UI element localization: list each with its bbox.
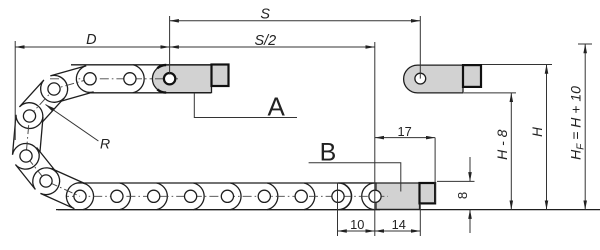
- ext line pin A' vertical: [419, 16, 421, 79]
- 8 dim upper arrow: [469, 157, 471, 181]
- bracket A' tab (bold): [463, 65, 481, 87]
- H ext line (bracket top level): [482, 64, 552, 66]
- svg-text:S: S: [260, 7, 270, 23]
- ext line S/2 long vertical: [374, 42, 376, 236]
- bend link 5: [40, 169, 85, 209]
- lower chain centerline: [60, 195, 388, 197]
- upper chain band bottom edge: [76, 92, 211, 94]
- bend link 2: [19, 80, 64, 125]
- last lower link (over bracket B gray): [338, 183, 375, 210]
- bend centerline: [26, 79, 90, 197]
- svg-text:10: 10: [350, 217, 364, 232]
- upper chain pin: [124, 73, 136, 85]
- bracket A pin hole (bold): [164, 73, 175, 84]
- bracket B body (gray, under chain): [376, 183, 420, 209]
- svg-text:A: A: [268, 92, 286, 122]
- S dim line: [170, 20, 421, 22]
- D dim line: [15, 46, 169, 48]
- bend link 4: [15, 148, 56, 190]
- 8 dim lower arrow: [469, 210, 471, 233]
- svg-text:S/2: S/2: [254, 33, 276, 49]
- baseline (floor line): [56, 209, 600, 211]
- H-8 ext line (bracket bottom level): [464, 92, 516, 94]
- svg-text:D: D: [86, 32, 96, 48]
- ext line 10-left: [337, 183, 339, 236]
- bend pins: [20, 73, 96, 187]
- bend link 1: [50, 66, 93, 102]
- upper link separation arc: [133, 65, 144, 93]
- bracket B tab (bold): [420, 183, 436, 203]
- lower chain band top edge: [66, 182, 377, 184]
- svg-text:H: H: [530, 127, 545, 137]
- lower chain band bottom edge: [58, 209, 380, 211]
- bend link 3: [13, 115, 44, 157]
- svg-text:B: B: [320, 138, 337, 166]
- lower link separation arcs: [83, 183, 94, 210]
- bracket A' pin hole: [415, 73, 426, 84]
- ext line 14-right (tab bottom): [419, 204, 421, 237]
- 10 dim line: [338, 230, 375, 232]
- HF top tick: [578, 43, 592, 45]
- upper chain centerline: [50, 78, 178, 80]
- H dim line: [546, 65, 548, 210]
- bracket A' body (top right, gray with rounded left cap): [404, 65, 463, 93]
- HF dim line: [584, 44, 586, 210]
- lower chain band fill: [66, 183, 362, 210]
- svg-text:HF = H + 10: HF = H + 10: [568, 86, 587, 160]
- ext line 17-right (tab right): [434, 138, 436, 203]
- bracket A cap junction bold arcs: [157, 65, 166, 68]
- 14 dim line: [375, 230, 421, 232]
- upper chain band top edge: [71, 64, 211, 66]
- bracket A tab (bold): [212, 65, 229, 87]
- 8 ext line (tab top level): [437, 180, 475, 182]
- leader R: [46, 105, 99, 142]
- lower chain pins: [74, 190, 381, 202]
- svg-text:17: 17: [397, 124, 411, 139]
- svg-text:R: R: [100, 136, 110, 152]
- svg-text:8: 8: [455, 192, 470, 199]
- svg-text:H - 8: H - 8: [494, 129, 510, 160]
- ext line left (D): [14, 41, 16, 140]
- S/2 dim line: [170, 46, 375, 48]
- bracket A centerline through hole: [155, 78, 178, 80]
- leader A: [194, 93, 297, 118]
- H-8 dim line: [510, 93, 512, 210]
- bracket A body (gray with rounded left cap): [152, 65, 211, 93]
- 17 dim line: [375, 137, 435, 139]
- leader B: [309, 163, 401, 192]
- svg-text:14: 14: [392, 217, 406, 232]
- upper chain band fill: [72, 65, 211, 93]
- ext line pin A vertical: [169, 16, 171, 75]
